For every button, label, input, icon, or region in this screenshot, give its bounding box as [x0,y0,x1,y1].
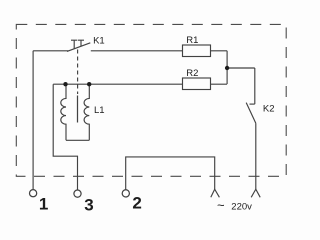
wire L1 top to R2 [53,83,182,85]
switch K2 blade [246,103,256,124]
terminal circle 3 [74,190,81,197]
wire L1 bottom [66,139,89,141]
resistor R2 [183,78,211,90]
inductor L1 left winding [61,84,66,140]
svg-text:K1: K1 [93,36,105,47]
svg-text:2: 2 [132,193,141,212]
wire R2 right [211,83,228,85]
switch K1 pushbutton actuator [71,40,84,49]
terminal circle 2 [122,190,129,197]
inductor L1 right winding [84,84,89,140]
resistor R1 [183,45,211,57]
terminal circle 1 [29,190,36,197]
core L1 [77,96,79,123]
svg-text:R2: R2 [186,68,198,79]
wire K2 lower [255,123,257,189]
svg-text:1: 1 [39,195,48,214]
switch K2 contact seat [250,103,255,105]
svg-text:~: ~ [217,198,225,213]
wire K1 to R1 [91,50,183,52]
svg-text:R1: R1 [186,35,198,46]
wire right vertical R1-R2 [226,51,228,84]
node R1-R2 junction [225,66,229,70]
wire left vertical (terminal 1 riser) [32,51,34,190]
dashed enclosure border [16,24,286,176]
switch K1 blade [67,43,90,52]
mechanical link dashed K1-L1 [77,50,79,95]
node L1 left [63,82,67,86]
svg-text:220v: 220v [231,201,252,212]
wire L1 to terminal 3 [53,84,77,190]
node L1 right [87,82,91,86]
svg-text:L1: L1 [94,105,105,116]
wire node to K2 [227,67,255,69]
svg-text:3: 3 [84,196,93,215]
supply arrow right [251,189,260,197]
wire K2 upper [254,68,256,104]
svg-text:K2: K2 [263,104,275,115]
supply arrow left [211,189,220,197]
wire R1 right [211,50,228,52]
wire terminal2 to supply [126,157,215,190]
wire top-left horizontal [33,50,68,52]
